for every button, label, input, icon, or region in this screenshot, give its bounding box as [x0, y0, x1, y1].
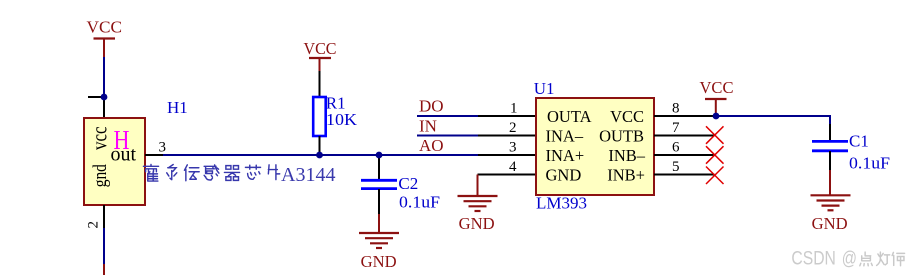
C2 pin bottom — [378, 189, 380, 214]
svg-text:VCC: VCC — [87, 18, 123, 37]
junction dot above C2 — [376, 152, 383, 159]
svg-text:H1: H1 — [167, 98, 188, 117]
svg-text:8: 8 — [672, 101, 680, 117]
U1 pin 1 — [478, 115, 536, 117]
wire DO — [417, 115, 478, 117]
svg-text:IN: IN — [419, 116, 437, 135]
svg-text:DO: DO — [419, 97, 444, 116]
U1 pin 7 — [654, 135, 715, 137]
芯 — [245, 165, 260, 179]
wire H1.3 to U1.3 (bus) — [163, 154, 478, 156]
svg-text:INA–: INA– — [546, 126, 584, 145]
power symbol VCC (U1 pin8) — [700, 78, 734, 116]
ground (U1 pin4) — [458, 196, 498, 211]
resistor R1 body — [313, 97, 326, 136]
no-connect X pin5 — [706, 167, 724, 185]
svg-text:CSDN: CSDN — [791, 249, 836, 270]
svg-text:INB–: INB– — [608, 146, 645, 165]
svg-text:C2: C2 — [398, 174, 418, 193]
wire stub left at junction — [88, 96, 104, 98]
C1 pin bottom — [829, 151, 831, 170]
no-connect X pin7 — [706, 126, 724, 144]
svg-text:GND: GND — [459, 214, 495, 233]
svg-text:2: 2 — [86, 221, 102, 229]
svg-text:4: 4 — [509, 159, 517, 175]
ground (C2) — [359, 233, 399, 248]
watermark 点灯师 — [860, 252, 905, 266]
svg-text:INB+: INB+ — [607, 165, 645, 184]
no-connect X pin6 — [706, 146, 724, 164]
U1 pin 2 — [478, 135, 536, 137]
gnd stub bottom edge — [103, 264, 105, 275]
C2 pin top — [378, 155, 380, 179]
svg-text:GND: GND — [546, 165, 582, 184]
U1 pin 6 — [654, 154, 715, 156]
ground (C1) — [811, 195, 851, 210]
C1 pin top — [829, 124, 831, 140]
wire pin8 to C1 — [717, 116, 831, 124]
wire H1 pin2 down — [103, 228, 105, 264]
hall sensor H1 body — [84, 118, 145, 205]
svg-text:VCC: VCC — [304, 39, 337, 58]
gnd stub U1 pin4 — [477, 175, 479, 197]
capacitor C1 plates — [812, 140, 848, 143]
svg-text:0.1uF: 0.1uF — [399, 193, 440, 212]
U1 pin 8 — [654, 115, 717, 117]
power symbol VCC (R1) — [304, 39, 337, 71]
svg-text:VCC: VCC — [610, 107, 644, 126]
svg-text:gnd: gnd — [89, 164, 110, 188]
svg-text:AO: AO — [419, 136, 444, 155]
U1 pin 3 — [478, 154, 536, 156]
svg-text:6: 6 — [672, 140, 680, 156]
label 霍尔传感器芯片A3144 — [143, 165, 279, 182]
svg-text:VCC: VCC — [700, 78, 734, 97]
gnd stub C1 — [829, 170, 831, 195]
U1 pin 4 — [478, 174, 537, 176]
op-amp U1 body — [536, 98, 654, 195]
svg-text:OUTA: OUTA — [547, 107, 592, 126]
svg-text:A3144: A3144 — [281, 164, 335, 186]
junction dot U1 pin8 — [713, 113, 720, 120]
传 — [184, 165, 199, 181]
wire IN — [417, 135, 478, 137]
power symbol VCC (left, H1 supply) — [87, 18, 123, 58]
svg-text:3: 3 — [509, 140, 517, 156]
H1 pin 3 — [145, 154, 163, 156]
svg-text:U1: U1 — [534, 79, 555, 98]
capacitor C2 plates — [361, 179, 397, 182]
gnd stub C2 — [378, 214, 380, 233]
svg-text:1: 1 — [510, 101, 518, 117]
svg-text:vcc: vcc — [87, 126, 112, 150]
svg-text:3: 3 — [159, 140, 167, 156]
尔 — [167, 165, 177, 180]
器 — [224, 166, 239, 181]
U1 pin 5 — [654, 174, 715, 176]
svg-text:5: 5 — [672, 159, 680, 175]
片 — [268, 165, 279, 180]
H1 pin 2 — [103, 205, 105, 228]
感 — [204, 165, 219, 180]
R1 pin top — [319, 71, 321, 97]
svg-text:INA+: INA+ — [546, 146, 585, 165]
svg-text:out: out — [111, 143, 137, 165]
svg-text:OUTB: OUTB — [599, 126, 644, 145]
svg-text:10K: 10K — [326, 110, 358, 129]
svg-text:7: 7 — [672, 120, 680, 136]
svg-text:2: 2 — [509, 120, 517, 136]
wire VCC to H1 pin1 — [103, 57, 105, 97]
junction dot under R1 — [316, 152, 323, 159]
R1 pin bottom — [319, 136, 321, 155]
svg-text:@: @ — [842, 249, 857, 270]
H1 pin 1 — [103, 97, 105, 118]
霍 — [143, 165, 158, 182]
svg-text:0.1uF: 0.1uF — [849, 154, 890, 173]
svg-text:GND: GND — [812, 214, 848, 233]
svg-text:LM393: LM393 — [536, 194, 587, 213]
svg-text:C1: C1 — [849, 132, 869, 151]
svg-text:GND: GND — [361, 252, 397, 271]
junction dot H1 pin1 — [101, 94, 108, 101]
